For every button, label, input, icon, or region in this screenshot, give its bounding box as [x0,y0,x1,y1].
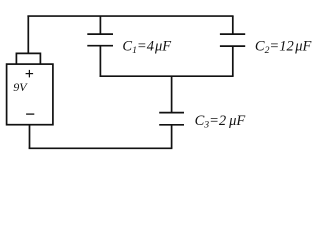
svg-text:9V: 9V [13,80,28,94]
wire battery positive lead [27,16,29,53]
svg-text:C2=12μF: C2=12μF [255,39,312,57]
capacitor C2 bottom plate [220,45,245,47]
wire middle horizontal [100,75,234,77]
battery B1 body [7,64,53,125]
wire C2 top lead [232,16,234,34]
capacitor C1 bottom plate [87,45,113,47]
capacitor C3 bottom plate [159,124,184,126]
svg-text:C3=2μF: C3=2μF [195,113,246,131]
wire bottom horizontal [29,147,173,149]
wire C2 bottom lead [232,46,234,76]
capacitor C1 top plate [87,33,113,35]
battery plus sign [26,70,33,78]
battery minus sign [26,113,34,115]
wire top horizontal [27,15,233,17]
battery B1 positive terminal tab [16,53,40,64]
wire battery negative lead [29,125,31,149]
capacitor C2 top plate [220,33,245,35]
wire C1 top lead [99,16,101,34]
wire C1 bottom lead [99,46,101,76]
wire C3 bottom lead [171,125,173,149]
wire C3 top lead [171,76,173,112]
capacitor C3 top plate [159,112,184,114]
svg-text:C1=4μF: C1=4μF [122,39,171,57]
